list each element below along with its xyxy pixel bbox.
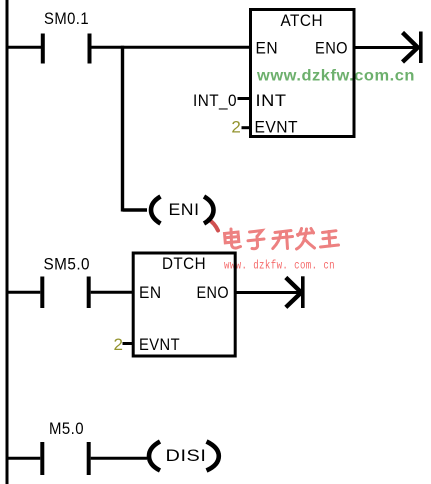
wire branch horizontal to ENI coil [123,208,148,211]
wire contact M5.0 to DISI coil [91,457,147,460]
coil DISI [149,442,219,471]
box DTCH U2 [133,253,235,356]
contact SM0.1 right bar [88,34,92,64]
svg-text:2: 2 [231,118,241,137]
svg-text:2: 2 [114,335,124,354]
arrow terminator rung1 [403,32,421,64]
svg-text:SM0.1: SM0.1 [44,9,89,28]
contact SM5.0 right bar [87,277,91,309]
svg-text:EN: EN [256,39,279,58]
contact M5.0 left bar [40,442,44,475]
svg-text:EVNT: EVNT [139,335,180,354]
wire ATCH ENO out [354,46,417,49]
svg-text:ENI: ENI [169,200,200,219]
wire rail to contact SM0.1 [7,46,41,49]
svg-text:www.dzkfw.com.cn: www.dzkfw.com.cn [256,68,415,85]
watermark red logo 开 [273,231,293,249]
contact SM5.0 left bar [40,277,44,309]
watermark red logo 电 [225,229,241,248]
wire contact SM0.1 to ATCH EN [92,46,251,49]
svg-text:ATCH: ATCH [281,11,324,30]
wire branch vertical to ENI [121,46,124,212]
svg-text:SM5.0: SM5.0 [44,255,91,274]
watermark red logo 发 [297,229,315,250]
svg-text:EN: EN [139,283,162,302]
svg-text:ENO: ENO [197,283,230,302]
watermark red logo 子 [248,231,264,249]
contact SM0.1 left bar [41,34,45,64]
svg-text:INT: INT [256,91,287,110]
svg-text:DISI: DISI [166,446,207,465]
watermark red stray stroke [209,220,219,231]
coil ENI [151,197,214,224]
svg-text:ENO: ENO [315,39,348,58]
wire rail to contact M5.0 [7,457,40,460]
contact M5.0 right bar [87,442,91,475]
svg-text:M5.0: M5.0 [49,419,84,438]
svg-text:DTCH: DTCH [162,254,206,273]
wire contact SM5.0 to DTCH EN [91,291,134,294]
wire INT_0 pin stub [238,97,251,100]
svg-text:www. dzkfw. com. cn: www. dzkfw. com. cn [224,260,335,273]
svg-text:INT_0: INT_0 [193,91,237,110]
wire EVNT pin stub (DTCH) [123,342,134,345]
box ATCH U1 [251,10,355,137]
left power rail [6,0,9,484]
wire rail to contact SM5.0 [7,291,40,294]
watermark red logo 王 [321,231,339,247]
arrow terminator rung2 [286,276,303,308]
svg-text:EVNT: EVNT [255,118,299,137]
wire EVNT pin stub (ATCH) [242,126,251,129]
wire DTCH ENO out [236,291,301,294]
